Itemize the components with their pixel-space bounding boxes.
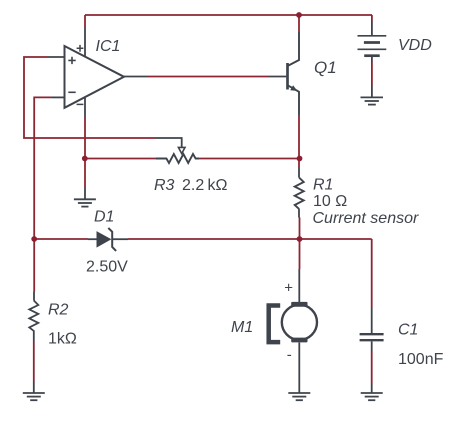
svg-text:+: + <box>284 279 293 296</box>
svg-text:2.2 kΩ: 2.2 kΩ <box>182 177 227 194</box>
svg-text:M1: M1 <box>231 319 253 336</box>
svg-text:2.50V: 2.50V <box>86 258 128 275</box>
svg-text:Current sensor: Current sensor <box>313 210 419 227</box>
svg-text:VDD: VDD <box>398 37 432 54</box>
svg-text:R3: R3 <box>154 177 175 194</box>
svg-text:-: - <box>287 347 292 364</box>
svg-text:1kΩ: 1kΩ <box>48 330 77 347</box>
svg-text:100nF: 100nF <box>398 351 444 368</box>
svg-text:10 Ω: 10 Ω <box>313 193 347 210</box>
svg-text:R2: R2 <box>48 301 69 318</box>
svg-text:D1: D1 <box>94 208 114 225</box>
svg-text:R1: R1 <box>313 177 333 194</box>
svg-text:C1: C1 <box>398 322 418 339</box>
svg-text:IC1: IC1 <box>96 38 121 55</box>
svg-text:Q1: Q1 <box>314 58 337 77</box>
